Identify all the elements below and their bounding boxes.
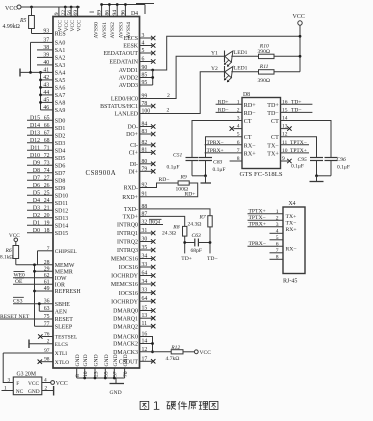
pin 2 GND wire xyxy=(42,390,54,392)
ground terminal SA4 row xyxy=(19,69,21,77)
pin 41 SA4 xyxy=(20,71,53,73)
wire pull-up vertical V1 xyxy=(34,265,36,327)
junction xyxy=(39,101,42,104)
LED Y1 xyxy=(224,51,226,63)
wire TXD- to R7 xyxy=(140,209,211,216)
svg-text:13: 13 xyxy=(282,124,288,130)
svg-text:CI+: CI+ xyxy=(129,151,139,157)
svg-text:SA9: SA9 xyxy=(55,108,66,114)
svg-text:SD13: SD13 xyxy=(55,216,68,222)
svg-text:68: 68 xyxy=(44,138,50,144)
svg-text:2: 2 xyxy=(47,339,50,345)
svg-text:REFRESH: REFRESH xyxy=(55,289,82,295)
svg-text:TXD+: TXD+ xyxy=(123,215,139,221)
svg-text:RESET: RESET xyxy=(55,317,73,323)
svg-text:CHIPSEL: CHIPSEL xyxy=(55,249,77,255)
wire bottom GND rail xyxy=(77,377,125,379)
node VCC oscillator xyxy=(51,381,55,385)
svg-text:55: 55 xyxy=(104,371,110,377)
transformer D8 GTS FC-518LS xyxy=(242,98,281,169)
svg-text:SA8: SA8 xyxy=(55,101,66,107)
svg-text:IOCHRDY: IOCHRDY xyxy=(111,299,139,305)
svg-text:TD+: TD+ xyxy=(181,256,192,262)
svg-text:SA1: SA1 xyxy=(55,48,66,54)
pin 2 X4 stub xyxy=(248,219,284,221)
svg-text:SD6: SD6 xyxy=(55,164,66,170)
wire pin9 stub xyxy=(58,7,60,17)
svg-text:DMARQ2: DMARQ2 xyxy=(113,324,138,330)
svg-text:10: 10 xyxy=(282,148,288,154)
svg-text:D3: D3 xyxy=(33,205,40,211)
pin 43 SA6 xyxy=(41,86,54,88)
wire R5 to pin 93 xyxy=(32,33,54,35)
svg-text:86: 86 xyxy=(104,10,110,16)
pin 15 TD- stub xyxy=(281,111,313,113)
svg-text:XTLO: XTLO xyxy=(55,360,69,366)
pin 38 SA1 xyxy=(37,49,53,51)
svg-text:75: 75 xyxy=(44,314,50,320)
svg-text:66: 66 xyxy=(44,123,50,129)
svg-text:24.3Ω: 24.3Ω xyxy=(162,231,176,237)
svg-text:LED0/HC0: LED0/HC0 xyxy=(111,97,138,103)
junction xyxy=(39,86,42,89)
junction xyxy=(315,174,318,177)
svg-text:38: 38 xyxy=(43,45,49,51)
wire pin86 stub xyxy=(108,5,110,17)
svg-text:21: 21 xyxy=(44,205,50,211)
svg-text:EEDATAOUT: EEDATAOUT xyxy=(103,51,138,57)
svg-text:42: 42 xyxy=(43,75,49,81)
svg-text:3: 3 xyxy=(237,116,240,122)
pin 67 SD2 net D13 xyxy=(27,134,53,136)
wire VCC rail top xyxy=(21,6,80,8)
pin 25 SD10 net D5 xyxy=(27,194,53,196)
svg-text:0.1μF: 0.1μF xyxy=(167,165,180,171)
svg-text:TPTX+: TPTX+ xyxy=(249,209,266,215)
svg-text:DMACK2: DMACK2 xyxy=(113,342,138,348)
svg-text:D5: D5 xyxy=(33,190,40,196)
wire pin56 stub xyxy=(70,7,72,17)
junction xyxy=(299,35,302,38)
junction xyxy=(39,94,42,97)
LED Y2 xyxy=(224,66,226,78)
svg-text:2: 2 xyxy=(167,93,170,99)
svg-text:SA7: SA7 xyxy=(55,93,66,99)
svg-text:4: 4 xyxy=(276,228,279,234)
svg-text:97: 97 xyxy=(44,348,50,354)
svg-text:VCC: VCC xyxy=(76,20,82,32)
svg-text:77: 77 xyxy=(44,321,50,327)
junction pin69 xyxy=(76,6,79,9)
pin 5 X4 stub xyxy=(270,239,284,241)
svg-text:3: 3 xyxy=(276,222,279,228)
svg-text:GND: GND xyxy=(104,354,110,366)
pin 24 SD11 net D4 xyxy=(27,202,53,204)
svg-text:EEDATAIN: EEDATAIN xyxy=(109,60,138,66)
svg-text:63: 63 xyxy=(44,306,50,312)
svg-text:27: 27 xyxy=(44,175,50,181)
svg-text:0.1μF: 0.1μF xyxy=(213,167,226,173)
ground terminal oscillator xyxy=(53,386,55,396)
svg-text:14: 14 xyxy=(282,116,288,122)
svg-text:DI+: DI+ xyxy=(128,170,138,176)
pin 9 stub xyxy=(281,160,289,162)
svg-text:XTLI: XTLI xyxy=(55,351,67,357)
pin 40 SA3 xyxy=(37,64,53,66)
svg-text:0.1μF: 0.1μF xyxy=(291,164,304,170)
wire R10 to VCC xyxy=(274,55,300,57)
svg-text:RES: RES xyxy=(55,32,66,38)
svg-text:DMARQ0: DMARQ0 xyxy=(113,309,138,315)
svg-text:CT: CT xyxy=(271,135,279,141)
svg-text:INTRQ1: INTRQ1 xyxy=(117,231,138,237)
svg-text:R9: R9 xyxy=(180,175,187,181)
svg-text:26: 26 xyxy=(44,183,50,189)
pin 7 X4 stub xyxy=(270,252,284,254)
junction xyxy=(83,377,86,380)
svg-text:TPRX+: TPRX+ xyxy=(207,148,224,154)
wire CHIPSEL down to MEMW row xyxy=(37,251,39,265)
svg-text:RXD+: RXD+ xyxy=(122,195,138,201)
svg-text:SA6: SA6 xyxy=(55,86,66,92)
svg-text:R5: R5 xyxy=(19,18,27,24)
wire AVDD2/AVDD3 join xyxy=(140,77,153,79)
svg-text:TXD-: TXD- xyxy=(124,207,138,213)
svg-text:BSTATUS/HC1: BSTATUS/HC1 xyxy=(100,104,138,110)
svg-text:20: 20 xyxy=(44,213,50,219)
svg-text:RD+: RD+ xyxy=(218,99,229,105)
svg-text:56: 56 xyxy=(67,10,73,16)
svg-text:RD−: RD− xyxy=(218,107,229,113)
svg-text:9: 9 xyxy=(282,156,285,162)
svg-text:SD0: SD0 xyxy=(55,119,66,125)
wire DMACK0 join xyxy=(140,337,153,352)
svg-text:SA4: SA4 xyxy=(55,71,66,77)
svg-text:VCC: VCC xyxy=(293,14,305,20)
svg-text:CT: CT xyxy=(244,119,252,125)
svg-text:SD14: SD14 xyxy=(55,224,68,230)
ground symbol GND xyxy=(115,378,117,384)
svg-text:NC: NC xyxy=(16,389,24,395)
pin 7 stub xyxy=(205,152,242,154)
svg-text:LED1: LED1 xyxy=(234,66,248,72)
pin 62 IOW xyxy=(13,277,53,279)
svg-text:RX−: RX− xyxy=(244,143,256,149)
svg-text:CT: CT xyxy=(271,119,279,125)
pin 70 GND xyxy=(124,368,126,378)
svg-text:SA5: SA5 xyxy=(55,78,66,84)
wire XTLI to oscillator xyxy=(3,353,13,383)
svg-text:SBHE: SBHE xyxy=(55,302,70,308)
svg-text:R6: R6 xyxy=(5,248,12,254)
junction pin56 xyxy=(70,6,73,9)
pin 3 X4 stub xyxy=(248,226,284,228)
svg-text:SA3: SA3 xyxy=(55,63,66,69)
pin 18 SD15 net D0 xyxy=(27,232,53,234)
svg-text:37: 37 xyxy=(43,38,49,44)
svg-text:98: 98 xyxy=(44,357,50,363)
svg-text:28: 28 xyxy=(44,260,50,266)
wire pin22 stub xyxy=(64,7,66,17)
wire cap commons right xyxy=(317,175,332,177)
svg-text:IOCHRDY: IOCHRDY xyxy=(111,274,139,280)
svg-text:TESTSEL: TESTSEL xyxy=(55,335,77,341)
svg-text:40: 40 xyxy=(43,60,49,66)
pin 14 CT wire to C96 xyxy=(281,121,332,158)
svg-text:R7: R7 xyxy=(199,215,206,221)
svg-text:16: 16 xyxy=(282,99,288,105)
pin 75 RESET xyxy=(0,318,53,320)
svg-text:D12: D12 xyxy=(30,138,40,144)
svg-text:74: 74 xyxy=(44,168,50,174)
resistor R6 xyxy=(15,242,17,246)
svg-text:76: 76 xyxy=(44,332,50,338)
svg-text:TX−: TX− xyxy=(267,143,279,149)
svg-text:SD15: SD15 xyxy=(55,231,68,237)
pin 7 CHIPSEL xyxy=(38,250,54,252)
svg-text:MEMR: MEMR xyxy=(55,270,73,276)
svg-text:11: 11 xyxy=(282,140,288,146)
svg-text:AVDD3: AVDD3 xyxy=(119,83,138,89)
svg-text:VCC: VCC xyxy=(5,6,17,12)
svg-text:ELCS: ELCS xyxy=(55,342,68,348)
pin 6 X4 stub xyxy=(248,245,284,247)
wire pin89 stub xyxy=(101,5,103,17)
svg-text:SD1: SD1 xyxy=(55,126,66,132)
svg-text:19: 19 xyxy=(44,220,50,226)
svg-text:24.3Ω: 24.3Ω xyxy=(188,222,202,228)
svg-text:RX−: RX− xyxy=(286,247,297,253)
svg-text:AVSS1: AVSS1 xyxy=(102,22,108,39)
svg-text:TPTX+: TPTX+ xyxy=(290,148,307,154)
pin 71 SD4 net D11 xyxy=(27,149,53,151)
svg-text:CI-: CI- xyxy=(130,143,138,149)
svg-text:G3 20M: G3 20M xyxy=(17,371,37,377)
pin 8 X4 stub xyxy=(270,258,284,260)
svg-text:IOR: IOR xyxy=(55,283,65,289)
svg-text:OE: OE xyxy=(15,279,23,285)
svg-text:LED1: LED1 xyxy=(234,50,248,56)
wire pin96 stub xyxy=(124,5,126,17)
svg-text:RD+: RD+ xyxy=(185,191,196,197)
svg-text:TX+: TX+ xyxy=(286,214,297,220)
svg-text:36: 36 xyxy=(44,299,50,305)
svg-text:10: 10 xyxy=(83,371,89,377)
node VCC R12 xyxy=(194,350,198,354)
svg-text:SD4: SD4 xyxy=(55,149,66,155)
pin 29 MEMR xyxy=(35,270,54,272)
svg-text:57: 57 xyxy=(113,371,119,377)
pin 57 GND xyxy=(113,368,115,378)
svg-text:AVSS2: AVSS2 xyxy=(110,22,116,39)
wire RXD- to R9 xyxy=(140,183,179,188)
wire Y2 to R11 xyxy=(231,71,258,73)
junction xyxy=(104,377,107,380)
junction xyxy=(204,174,207,177)
wire Y1 to R10 xyxy=(231,55,258,57)
svg-text:AVDD2: AVDD2 xyxy=(119,76,138,82)
wire DMACK3 to R12 xyxy=(140,351,172,353)
pin 1 X4 stub xyxy=(248,213,284,215)
svg-text:GND: GND xyxy=(94,354,100,366)
svg-text:D4: D4 xyxy=(33,198,40,204)
svg-text:5: 5 xyxy=(237,132,240,138)
svg-text:C63: C63 xyxy=(192,233,202,239)
caption figure title: TU 1 YING JIAN YUAN LI TU xyxy=(140,401,149,409)
svg-text:TPTX−: TPTX− xyxy=(290,140,307,146)
svg-text:D10: D10 xyxy=(30,153,40,159)
pin 66 SD1 net D14 xyxy=(27,127,53,129)
pin 27 SD8 net D7 xyxy=(27,179,53,181)
pin 98 XTLO xyxy=(41,361,53,363)
svg-text:62: 62 xyxy=(44,273,50,279)
wire TXD+ to R8 xyxy=(140,216,185,226)
resistor R5 xyxy=(31,7,33,16)
svg-text:X4: X4 xyxy=(289,201,296,207)
svg-text:SD2: SD2 xyxy=(55,134,66,140)
pin 46 SA9 xyxy=(41,109,54,111)
pin 26 SD9 net D6 xyxy=(27,187,53,189)
svg-text:68pF: 68pF xyxy=(191,248,203,254)
svg-text:RD−: RD− xyxy=(244,111,256,117)
pin 2 ELCS xyxy=(29,343,53,345)
svg-text:CT: CT xyxy=(244,135,252,141)
pin 39 SA2 xyxy=(37,56,53,58)
svg-text:TPRX−: TPRX− xyxy=(249,241,266,247)
pin 13 stub xyxy=(281,128,289,130)
svg-text:D4: D4 xyxy=(131,11,138,17)
svg-text:RD+: RD+ xyxy=(244,103,256,109)
svg-text:65: 65 xyxy=(44,115,50,121)
wire SBHE-AEN vertical V2 xyxy=(38,304,40,312)
svg-text:4: 4 xyxy=(237,124,240,130)
pin 8 stub xyxy=(230,160,242,162)
pin 19 SD14 net D1 xyxy=(27,224,53,226)
pin 77 SLEEP xyxy=(35,325,54,327)
svg-text:TD−: TD− xyxy=(207,256,218,262)
svg-text:72: 72 xyxy=(44,153,50,159)
svg-text:7: 7 xyxy=(276,248,279,254)
wire SA5-SA9 vertical xyxy=(40,72,42,110)
svg-text:15: 15 xyxy=(282,107,288,113)
svg-text:0.1μF: 0.1μF xyxy=(337,165,350,171)
svg-text:DMARQ1: DMARQ1 xyxy=(113,316,138,322)
svg-text:DI-: DI- xyxy=(130,162,138,168)
pin 49 REFRESH xyxy=(35,290,54,292)
svg-text:VCC: VCC xyxy=(28,381,39,387)
svg-text:D8: D8 xyxy=(243,92,250,98)
svg-text:2: 2 xyxy=(167,108,170,114)
oscillator G3 20M xyxy=(13,377,42,395)
pin 61 IOR xyxy=(13,283,53,285)
pin 63 AEN xyxy=(39,310,53,312)
IC D4 CS8900A body xyxy=(53,17,140,369)
svg-text:4: 4 xyxy=(44,377,47,383)
pin 3 CT wire to C51 xyxy=(192,121,242,158)
svg-text:IOCS16: IOCS16 xyxy=(119,291,138,297)
svg-text:GND: GND xyxy=(110,390,122,396)
wire R12 to VCC xyxy=(183,351,194,353)
pin 68 SD3 net D12 xyxy=(27,142,53,144)
svg-text:SD7: SD7 xyxy=(55,171,66,177)
pin 23 GND xyxy=(94,368,96,378)
svg-text:C96: C96 xyxy=(337,157,347,163)
pin 65 SD0 net D15 xyxy=(27,119,53,121)
svg-text:71: 71 xyxy=(44,145,50,151)
pin 44 SA7 xyxy=(41,94,54,96)
svg-text:VCC: VCC xyxy=(56,381,68,387)
pin 10 GND xyxy=(84,368,86,378)
junction xyxy=(29,71,32,74)
svg-text:61: 61 xyxy=(44,279,50,285)
ground bar AVSS termination xyxy=(144,5,146,15)
svg-text:INTRQ2: INTRQ2 xyxy=(117,240,138,246)
svg-text:C83: C83 xyxy=(213,160,223,166)
wire AVDD net xyxy=(140,36,301,70)
svg-text:69: 69 xyxy=(73,10,79,16)
wire tick mark xyxy=(90,11,95,13)
junction xyxy=(151,350,154,353)
svg-text:EESK: EESK xyxy=(123,44,138,50)
svg-text:SD10: SD10 xyxy=(55,194,68,200)
pin 42 SA5 xyxy=(41,79,54,81)
pin 16 TD+ stub xyxy=(281,103,313,105)
pin 76 TESTSEL xyxy=(42,336,54,338)
svg-text:IOW: IOW xyxy=(55,276,67,282)
wire pin69 stub xyxy=(77,7,79,17)
svg-text:D6: D6 xyxy=(33,183,40,189)
svg-text:SA0: SA0 xyxy=(55,41,66,47)
ground terminal C51/C83 xyxy=(205,176,207,183)
svg-text:AEN: AEN xyxy=(55,309,68,315)
svg-text:D0: D0 xyxy=(33,228,40,234)
svg-text:RD−: RD− xyxy=(159,177,170,183)
svg-text:INTRQ3: INTRQ3 xyxy=(117,248,138,254)
svg-text:D11: D11 xyxy=(30,145,40,151)
wire LED0 net to Y1 xyxy=(140,56,225,98)
svg-text:49: 49 xyxy=(44,286,50,292)
svg-text:7: 7 xyxy=(47,246,50,252)
svg-text:EECS: EECS xyxy=(124,36,138,42)
svg-text:67: 67 xyxy=(44,130,50,136)
svg-text:RXD-: RXD- xyxy=(124,186,138,192)
svg-text:MEMW: MEMW xyxy=(55,263,75,269)
net IRQ4 on INTRQ0 xyxy=(140,224,164,226)
svg-text:RESET NET: RESET NET xyxy=(0,314,30,320)
pin 1 NC wire xyxy=(2,390,14,392)
junction xyxy=(183,241,186,244)
svg-text:1: 1 xyxy=(237,99,240,105)
wire R11 to VCC xyxy=(274,71,300,73)
svg-text:2: 2 xyxy=(276,215,279,221)
svg-text:AVSS0: AVSS0 xyxy=(94,22,100,39)
svg-text:Y2: Y2 xyxy=(211,66,218,72)
pin 4 VCC wire xyxy=(42,382,51,384)
svg-text:D1: D1 xyxy=(33,220,40,226)
svg-text:44: 44 xyxy=(43,90,49,96)
svg-text:TX+: TX+ xyxy=(267,151,279,157)
svg-text:IRQ4: IRQ4 xyxy=(149,220,161,225)
pin 4 stub xyxy=(234,128,243,130)
pin 21 SD12 net D3 xyxy=(27,209,53,211)
svg-text:GND: GND xyxy=(28,389,40,395)
svg-text:6: 6 xyxy=(276,241,279,247)
svg-text:5: 5 xyxy=(276,235,279,241)
svg-text:390Ω: 390Ω xyxy=(258,78,271,84)
junction xyxy=(113,377,116,380)
svg-text:TD+: TD+ xyxy=(291,99,301,105)
svg-text:LANLED: LANLED xyxy=(114,112,138,118)
